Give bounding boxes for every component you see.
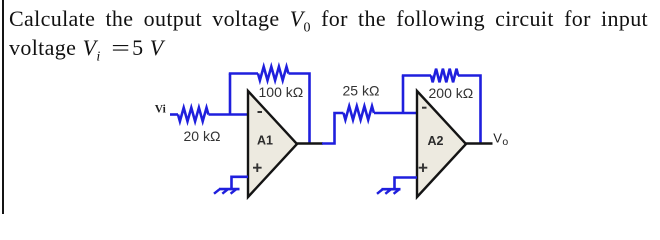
wire R3 to A2 inverting input <box>374 112 417 115</box>
wire feedback-1 top right lead and right vertical <box>289 74 310 144</box>
svg-text:200 kΩ: 200 kΩ <box>429 85 474 101</box>
resistor R3 25 kOhm <box>344 106 374 120</box>
wire A2 noninverting to ground <box>395 178 418 189</box>
value label 20 kOhm <box>184 128 221 144</box>
ground GND1 <box>214 189 240 194</box>
value label 200 kOhm <box>429 85 474 101</box>
op-amp A1 <box>248 91 297 197</box>
node Vo output label <box>493 130 508 148</box>
wire feedback-2 top left lead <box>402 74 431 77</box>
value label 100 kOhm <box>259 84 304 100</box>
problem statement text <box>9 4 648 62</box>
wire feedback-2 top right lead and right vertical <box>458 76 481 144</box>
node Vi input label <box>155 104 167 116</box>
wire feedback-1 top left lead <box>229 72 258 75</box>
ground GND2 <box>377 189 401 194</box>
left page border <box>2 0 4 214</box>
wire A1 noninverting to ground <box>232 177 249 189</box>
resistor R1 20 kOhm <box>178 108 208 122</box>
wire feedback-1 left vertical <box>229 74 232 115</box>
svg-text:25 kΩ: 25 kΩ <box>343 83 380 99</box>
wire A2 output (black) <box>466 142 493 145</box>
wire input lead from Vi <box>170 113 178 116</box>
svg-text:20 kΩ: 20 kΩ <box>184 128 221 144</box>
resistor R4 200 kOhm <box>431 69 458 83</box>
svg-text:100 kΩ: 100 kΩ <box>259 84 304 100</box>
wire A1 output (black) <box>297 142 323 145</box>
svg-text:Vo: Vo <box>493 130 508 148</box>
wire output elbow up to 25k level <box>322 113 344 145</box>
resistor R2 100 kOhm <box>258 67 288 81</box>
svg-text:A2: A2 <box>428 134 444 148</box>
wire feedback-2 left vertical <box>402 76 405 114</box>
svg-text:Vi: Vi <box>155 104 167 116</box>
wire R1 to A1 inverting input <box>209 113 249 116</box>
svg-text:A1: A1 <box>257 134 273 148</box>
value label 25 kOhm <box>343 83 380 99</box>
op-amp A2 <box>417 91 466 197</box>
